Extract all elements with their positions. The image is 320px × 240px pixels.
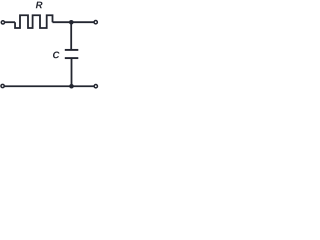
wire top (resistor to output terminal) (53, 21, 95, 23)
label R (36, 2, 43, 9)
node junction top (69, 20, 74, 25)
resistor R (15, 15, 52, 28)
wire capacitor top lead (70, 22, 72, 49)
terminal input top-left (1, 21, 4, 24)
capacitor C (65, 50, 79, 58)
terminal input bottom-left (1, 84, 4, 87)
terminal output bottom-right (94, 85, 97, 88)
terminal output top-right (94, 21, 97, 24)
wire capacitor bottom lead (71, 58, 73, 86)
wire input lead (5, 21, 15, 23)
label C (53, 51, 60, 58)
node junction bottom (69, 84, 74, 89)
wire bottom (4, 85, 94, 87)
